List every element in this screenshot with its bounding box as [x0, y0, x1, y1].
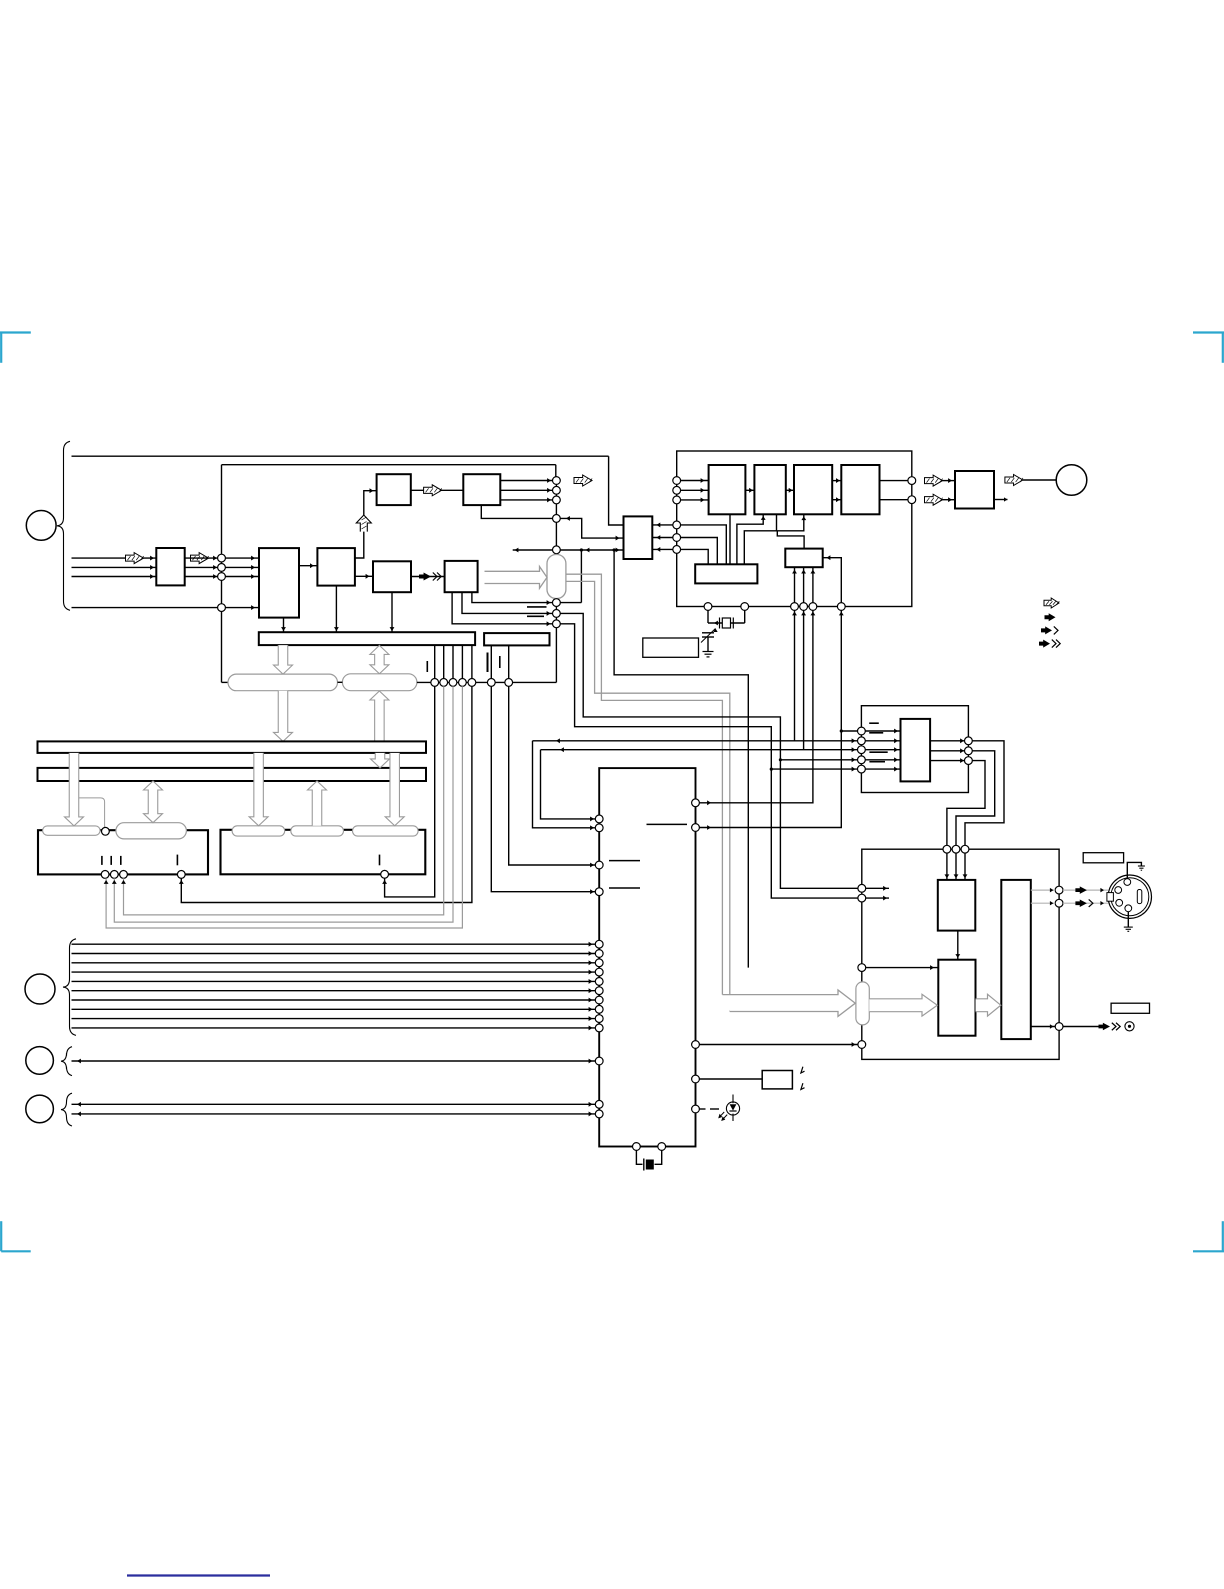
node C1 bot xtal2	[741, 603, 749, 611]
node C1 e2	[673, 534, 681, 542]
wire C1in1 to A	[681, 480, 709, 482]
node x221 n2	[218, 564, 226, 572]
wire G top loop	[777, 531, 804, 549]
wire D out hi	[880, 480, 912, 482]
wire W1 out1	[185, 557, 222, 559]
wire D out lo	[880, 499, 912, 501]
block T2	[463, 474, 500, 505]
tick R9 b	[801, 1083, 805, 1089]
hollow arrow BAR1 to SA	[274, 645, 293, 674]
connector P4 circle	[26, 1047, 54, 1075]
wire B3 right up to T1	[355, 491, 377, 558]
wire A pin down to F	[729, 514, 731, 564]
wire F pin to B a	[737, 514, 763, 564]
arrow on line5	[217, 605, 221, 610]
wire bar2 pin1	[490, 645, 492, 682]
brace P5	[61, 1093, 72, 1126]
connector P1 circle	[26, 511, 56, 541]
node x221 n4	[218, 604, 226, 612]
block C2 inner	[901, 719, 931, 782]
node CPU l3	[595, 861, 603, 869]
wire SA-SB link	[338, 681, 343, 683]
node C1 bot xtal1	[704, 603, 712, 611]
node CPU r5	[692, 1105, 700, 1113]
hatched arrow out hi	[925, 475, 943, 486]
node C3 l3	[858, 964, 866, 972]
crop mark top-left	[0, 333, 31, 363]
node C1 out1	[908, 477, 916, 485]
CPU stub c	[647, 823, 688, 825]
block B	[754, 465, 785, 514]
hatched arrow on y480	[574, 475, 592, 486]
wire bus out	[1063, 1026, 1102, 1028]
block T1	[377, 474, 411, 505]
arrow into B1 in4	[251, 605, 255, 610]
node C2 o3	[965, 757, 973, 765]
wire M3 o3	[1031, 1026, 1055, 1028]
wire y550 bus	[513, 549, 624, 551]
wire bar1 pin2	[443, 645, 445, 682]
wire C2 i4 in	[865, 759, 900, 761]
crystal X2	[644, 1159, 654, 1171]
gray wire row3 to K1p2	[114, 686, 453, 922]
pin tick n6	[527, 606, 547, 608]
node x556 n5	[553, 546, 561, 554]
wire t1 to M1	[946, 853, 948, 880]
node C3 l4	[858, 1041, 866, 1049]
gray arrow M2-M3	[976, 994, 1001, 1016]
gray wire M3 o2	[1031, 902, 1055, 904]
wire CPU to LED	[699, 1108, 705, 1110]
gray arrow V2-M2	[869, 994, 937, 1016]
gray wire V1 b	[566, 581, 730, 1011]
node CPU l1	[595, 815, 603, 823]
legend solid arrow	[1045, 613, 1056, 621]
IC CPU box	[599, 768, 695, 1146]
arrow up into g1	[792, 612, 797, 616]
wire row1 to K2p1	[385, 686, 435, 897]
arrow into W1 a	[150, 556, 154, 561]
arrow up into g3	[810, 612, 815, 616]
hollow arrow L1 to SB	[370, 691, 389, 741]
wire C2 o1	[930, 740, 964, 742]
wire xtal2 left	[636, 1150, 642, 1164]
node C1 out2	[908, 496, 916, 504]
wire y456 down to E	[609, 456, 624, 525]
node CPU l4	[595, 888, 603, 896]
node K1 p4	[177, 871, 185, 879]
node x556 n2	[553, 486, 561, 494]
hollow up arrow on feedback	[356, 515, 371, 532]
hollow arrow L1-S3	[249, 753, 268, 826]
wire n6 up to y550	[580, 550, 582, 603]
stadium S2	[116, 823, 186, 839]
gray wire V1 a	[566, 574, 723, 994]
node x221 n1	[218, 554, 226, 562]
tick C2 d	[869, 761, 885, 763]
brace P3	[63, 939, 76, 1036]
node G2 pin	[595, 1057, 603, 1065]
bus BAR1	[259, 632, 475, 645]
junction wB y760	[779, 758, 782, 761]
DIN connector J1	[1107, 875, 1152, 918]
wire C2 i3 in	[865, 749, 900, 751]
node C1 in2	[673, 486, 681, 494]
CPU stub b	[609, 887, 640, 889]
container C2	[861, 706, 968, 793]
wire CPU to C3	[699, 1044, 861, 1046]
wire stair3	[947, 761, 985, 846]
wire n1 link y465	[555, 465, 557, 477]
label box L3	[1111, 1003, 1149, 1013]
node K2 p1	[381, 870, 389, 878]
wire g1 down	[794, 610, 796, 740]
node C3 l2	[858, 894, 866, 902]
double arrow BAR1-SB	[370, 645, 389, 673]
block B3	[317, 548, 355, 586]
pin tick k1c	[120, 856, 122, 865]
node C2 i1	[858, 727, 866, 735]
node K1 p3	[120, 871, 128, 879]
hollow arrow L1-S5	[385, 753, 404, 826]
big gray arrow into V1	[485, 567, 548, 589]
node G3 pin a	[595, 1100, 603, 1108]
wire E c3 to F	[681, 549, 709, 564]
wire x221 to stadium SA	[222, 681, 229, 683]
wire bar1 pin4	[461, 645, 463, 682]
block M2	[938, 960, 975, 1036]
wire wA branch	[771, 768, 862, 770]
hollow arrow SA to L1	[274, 691, 293, 742]
wire B5 pin2 to n7	[462, 592, 553, 613]
wire G pin1	[794, 567, 796, 606]
node C3 t3	[961, 845, 969, 853]
solid arrow audio R	[1075, 899, 1093, 907]
node x556 n4	[553, 515, 561, 523]
wire y465	[222, 464, 556, 466]
connector P5 circle	[26, 1095, 54, 1123]
wire t3 to M1	[964, 853, 966, 880]
node C1 e1	[673, 521, 681, 529]
node C1 bot g1	[791, 603, 799, 611]
wire x540 to CPU	[541, 750, 600, 819]
wire l3 to M2	[866, 967, 939, 969]
box K1	[38, 830, 208, 874]
wire C-D lo	[832, 499, 841, 501]
legend hatched arrow	[1044, 598, 1059, 608]
pin B4 bottom	[391, 592, 393, 632]
capsule V1	[547, 555, 566, 599]
block D	[841, 465, 879, 514]
wire B3-B4	[355, 575, 373, 577]
node C3 r2	[1055, 899, 1063, 907]
wire E to node c2	[652, 537, 673, 539]
wire stair1	[965, 741, 1004, 846]
node x556 n3	[553, 496, 561, 504]
wire into B1 in1	[225, 557, 259, 559]
CPU stub a	[609, 860, 640, 862]
node x556 n7	[553, 610, 561, 618]
gray wire to DIN a	[1063, 889, 1108, 891]
node G3 pin b	[595, 1110, 603, 1118]
node K1 p2	[110, 871, 118, 879]
wire group G2	[72, 1060, 600, 1062]
wire T2 out3	[500, 499, 552, 501]
block A	[709, 465, 746, 514]
stadium S4	[291, 826, 344, 836]
wire E c1 to F	[681, 525, 727, 564]
pin tick t2	[487, 653, 489, 673]
node C3 t2	[952, 845, 960, 853]
solid chevron arrow B4-B5	[411, 576, 445, 578]
arrow left on y550	[586, 548, 590, 553]
wire l2 stub	[866, 897, 889, 899]
wire n6 horiz	[560, 602, 581, 604]
stadium SB	[342, 674, 417, 691]
legend solid arrow 1 chev	[1041, 626, 1058, 634]
node C2 i4	[858, 756, 866, 764]
pin tick k2a	[379, 855, 381, 866]
label box L2	[1083, 853, 1123, 863]
junction dot y550/x581	[580, 548, 583, 551]
pin tick n7	[527, 615, 544, 617]
node group G1 pins	[595, 940, 603, 1032]
bus F	[695, 564, 757, 583]
tick R9 a	[801, 1067, 805, 1073]
label box L1	[643, 638, 699, 657]
crop mark top-right	[1193, 333, 1224, 363]
wire row7 to CPU	[509, 686, 600, 865]
block B1	[259, 548, 299, 618]
node C1 bot g4	[837, 603, 845, 611]
node C2 i5	[858, 765, 866, 773]
hollow arrow S4-L2	[308, 781, 327, 826]
wire xtal horiz	[708, 622, 745, 624]
wire g4 branch	[841, 730, 862, 732]
node row n2	[440, 679, 448, 687]
node row n6	[487, 679, 495, 687]
wire trimmer to gnd	[707, 637, 709, 652]
node C2 o1	[965, 737, 973, 745]
node CPU r3	[692, 1041, 700, 1049]
pin B3 bottom	[335, 586, 337, 633]
node s1-s2	[102, 827, 110, 835]
bus vertical x221	[221, 465, 223, 683]
hollow arrow L1-S1	[65, 753, 84, 826]
vertical x556 upper	[555, 481, 557, 555]
pin B2 bottom to node	[481, 505, 556, 518]
wire A-B	[745, 489, 754, 491]
double arrow L2-S2	[144, 781, 163, 823]
wire B5 pin3 to n8	[452, 592, 552, 624]
wire H stub	[994, 499, 1008, 501]
solid arrow audio L	[1075, 886, 1087, 894]
node C3 t1	[943, 845, 951, 853]
gray wire to DIN b	[1063, 902, 1108, 904]
wire B5 pin1 to n6	[472, 592, 553, 602]
wire n4 to E	[560, 518, 623, 538]
wire row5 to K1p4	[181, 686, 472, 902]
wire group G1 (10 lines)	[72, 942, 600, 1031]
block H	[955, 471, 994, 509]
block B4	[373, 561, 411, 592]
wire B-C	[786, 489, 794, 491]
target node	[1125, 1022, 1134, 1031]
wire B1-B3	[299, 565, 317, 567]
wire G pin3	[812, 567, 814, 606]
tick C2 c	[869, 751, 887, 753]
node CPU b2	[658, 1143, 666, 1151]
arrow into W1 c	[150, 574, 154, 579]
wire group G3 a	[72, 1103, 600, 1105]
hatched arrow T1-T2	[411, 489, 464, 491]
junction g4 y731	[840, 729, 843, 732]
gray wire row4 to K1p1	[106, 686, 462, 928]
pin tick k1d	[176, 855, 178, 866]
wire g2 down	[803, 610, 805, 749]
wire y550 to x614 branch	[614, 550, 748, 968]
ground GND1	[703, 652, 714, 657]
wire E to node c3	[652, 548, 673, 550]
DIN gnd top	[1127, 862, 1145, 878]
stadium S3	[232, 826, 285, 836]
block C	[794, 465, 832, 514]
wire junction B drop	[776, 514, 778, 531]
block B5	[445, 561, 478, 592]
bus BAR2	[484, 633, 549, 645]
wire stair2	[956, 751, 995, 846]
node CPU r1	[692, 799, 700, 807]
wire P1 line1 (y456)	[72, 455, 609, 457]
solid arrow bus	[1099, 1023, 1121, 1031]
node CPU b1	[633, 1143, 641, 1151]
wire C2 i1 in	[865, 730, 900, 732]
node CPU r4	[692, 1075, 700, 1083]
gray wire M3 o1	[1031, 889, 1055, 891]
wire F pin to BC b	[744, 514, 804, 564]
node x221 n3	[218, 573, 226, 581]
wire CPU to R9	[699, 1078, 762, 1080]
node C1 e3	[673, 546, 681, 554]
tick C2 a	[869, 722, 879, 724]
crystal X1	[720, 618, 734, 629]
footer rule	[127, 1574, 270, 1576]
wire G right	[823, 558, 842, 607]
capsule V2	[856, 982, 869, 1025]
node x556 n1	[553, 477, 561, 485]
node row n4	[459, 679, 467, 687]
node C1 bot g2	[800, 603, 808, 611]
wire row6 to CPU	[491, 686, 599, 891]
node C3 r1	[1055, 886, 1063, 894]
legend solid arrow 2 chev	[1039, 640, 1060, 648]
brace P1	[57, 441, 70, 610]
connector P2 circle	[1056, 465, 1087, 496]
tick C2 b	[869, 732, 883, 734]
wire C2 i5 in	[865, 768, 900, 770]
node CPU r2	[692, 824, 700, 832]
wire thin to node s	[79, 798, 105, 828]
arrow up into g2	[801, 612, 806, 616]
wire W1 out3	[185, 576, 222, 578]
stadium S1	[43, 826, 101, 835]
DIN gnd bottom	[1124, 912, 1133, 932]
LED D1	[718, 1095, 739, 1122]
node K1 p1	[101, 871, 109, 879]
wire C2 o3	[930, 760, 964, 762]
wire wB	[560, 613, 862, 888]
hatched arrow into W1	[126, 553, 144, 564]
wire P1 line4 (y576)	[72, 576, 157, 578]
big gray arrow into V2	[722, 990, 855, 1016]
container C3	[862, 849, 1059, 1059]
stadium SA	[228, 674, 338, 691]
node C3 l1	[858, 884, 866, 892]
wire C-D hi	[832, 480, 841, 482]
wire wA	[560, 624, 862, 898]
trimmer cap CT1	[701, 629, 718, 643]
arrow into W1 b	[150, 565, 154, 570]
wire bar1 pin3	[452, 645, 454, 682]
node C3 r3	[1055, 1023, 1063, 1031]
node C1 in1	[673, 477, 681, 485]
wire bar2 pin2	[508, 645, 510, 682]
wire y750 bus	[541, 749, 862, 751]
buffer W1	[156, 548, 184, 585]
node C1 bot g3	[809, 603, 817, 611]
block M3	[1001, 880, 1031, 1039]
crop mark bottom-right	[1193, 1221, 1224, 1251]
container C1	[677, 451, 912, 607]
wire y741 bus	[533, 740, 862, 742]
hollow arrow L1-L2	[371, 753, 390, 768]
wire l1 stub	[866, 887, 889, 889]
wire G pin2	[803, 567, 805, 606]
junction dot y550/x614	[613, 548, 616, 551]
wire group G3 b	[72, 1113, 600, 1115]
crop mark bottom-left	[1, 1221, 31, 1251]
wire P1 line3 (y567)	[72, 566, 157, 568]
wire T2 out2	[500, 489, 552, 491]
brace P4	[61, 1047, 72, 1076]
wire into B1 in2	[225, 566, 259, 568]
hatched arrow H out	[1005, 475, 1023, 486]
wire E to node c1	[652, 524, 673, 526]
pin tick t3	[499, 656, 501, 668]
wire xtal left drop	[707, 610, 709, 623]
vertical x556 lower	[555, 599, 557, 683]
bus L1	[38, 741, 427, 753]
node CPU l2	[595, 824, 603, 832]
wire bar1 pin5	[471, 645, 473, 682]
wire into B1 in3	[225, 576, 259, 578]
block G	[785, 549, 822, 568]
node row n1	[431, 679, 439, 687]
pin tick t1	[426, 661, 428, 672]
wire t2 to M1	[955, 853, 957, 880]
node row n3	[449, 679, 457, 687]
wire xtal2 right	[655, 1150, 662, 1164]
pin tick k1b	[110, 856, 112, 865]
wire E c2 to F	[681, 538, 718, 565]
node x556 n6	[553, 599, 561, 607]
hatched arrow out of W1	[191, 553, 209, 564]
wire x532 to CPU	[533, 741, 600, 828]
wire W1 out2	[185, 566, 222, 568]
node C2 i3	[858, 746, 866, 754]
wire SB to node row	[417, 681, 557, 683]
wire C1in2 to A	[681, 489, 709, 491]
